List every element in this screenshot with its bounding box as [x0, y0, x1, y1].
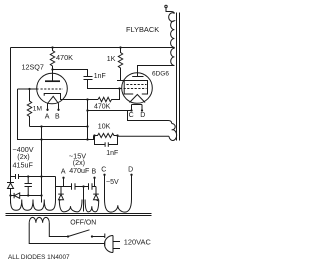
svg-text:470K: 470K: [94, 103, 111, 110]
svg-text:C: C: [129, 112, 134, 119]
svg-text:ALL DIODES 1N4007: ALL DIODES 1N4007: [8, 254, 70, 261]
svg-text:A: A: [45, 113, 50, 120]
svg-text:10K: 10K: [98, 123, 111, 130]
svg-text:6DG6: 6DG6: [152, 71, 169, 78]
svg-text:B: B: [92, 169, 97, 176]
svg-text:(2x): (2x): [73, 159, 85, 167]
svg-text:1nF: 1nF: [94, 73, 106, 80]
svg-text:415uF: 415uF: [13, 161, 34, 170]
svg-text:D: D: [128, 167, 133, 174]
svg-text:1M: 1M: [33, 106, 42, 113]
svg-text:OFF/ON: OFF/ON: [70, 220, 96, 227]
svg-text:FLYBACK: FLYBACK: [126, 25, 159, 34]
svg-text:1K: 1K: [107, 56, 116, 63]
svg-text:120VAC: 120VAC: [124, 237, 152, 246]
svg-text:(2x): (2x): [17, 152, 29, 161]
svg-text:D: D: [140, 112, 145, 119]
svg-text:12SQ7: 12SQ7: [22, 63, 44, 72]
svg-text:C: C: [101, 167, 106, 174]
svg-text:~5V: ~5V: [106, 179, 119, 186]
svg-text:B: B: [55, 113, 60, 120]
svg-text:470K: 470K: [56, 53, 73, 62]
svg-text:1nF: 1nF: [106, 150, 118, 157]
svg-text:470uF: 470uF: [69, 167, 90, 175]
svg-text:A: A: [61, 169, 66, 176]
